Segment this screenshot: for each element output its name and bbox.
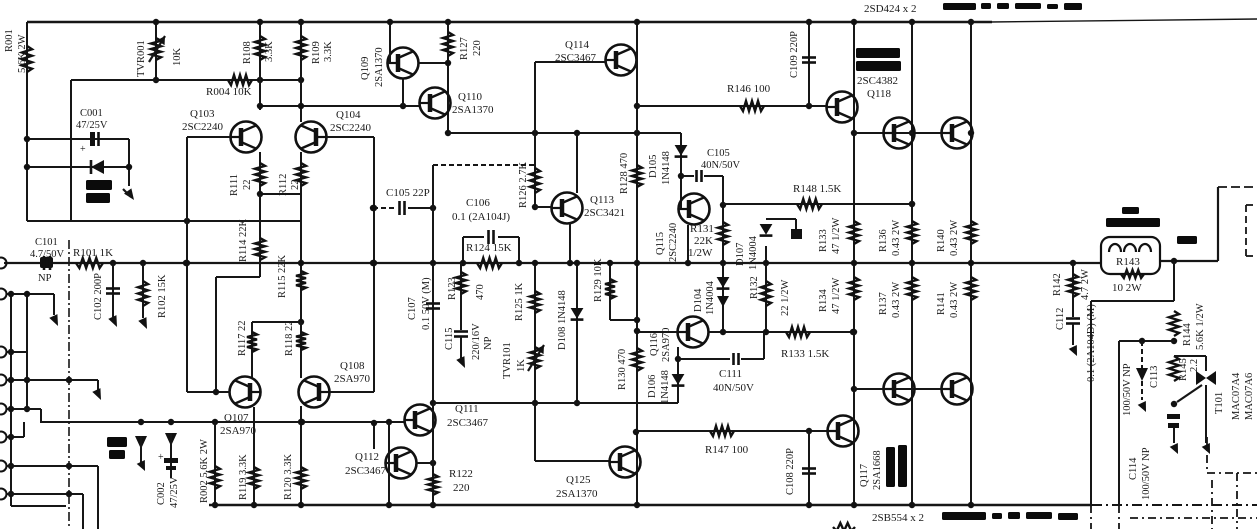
svg-text:R146 100: R146 100	[727, 83, 771, 95]
svg-text:40N/50V: 40N/50V	[713, 382, 754, 394]
svg-text:D107: D107	[735, 243, 746, 266]
svg-text:C105 22P: C105 22P	[386, 187, 430, 199]
svg-text:R102 15K: R102 15K	[157, 274, 168, 318]
svg-text:Q109: Q109	[360, 57, 371, 80]
svg-text:2SC2240: 2SC2240	[182, 121, 223, 133]
svg-text:C106: C106	[466, 197, 490, 209]
svg-text:C101: C101	[35, 237, 58, 248]
svg-text:+: +	[158, 452, 164, 463]
svg-text:R118 22: R118 22	[284, 321, 295, 357]
svg-text:47/25V: 47/25V	[76, 120, 108, 131]
svg-text:TVR101: TVR101	[502, 342, 513, 379]
svg-text:C114: C114	[1128, 457, 1139, 480]
svg-text:R141: R141	[936, 292, 947, 315]
svg-text:2SC3467: 2SC3467	[447, 417, 488, 429]
svg-text:R111: R111	[229, 174, 240, 196]
svg-text:R140: R140	[936, 229, 947, 252]
svg-text:1N4148: 1N4148	[660, 370, 671, 404]
svg-text:R133: R133	[818, 229, 829, 252]
svg-text:Q115: Q115	[655, 232, 666, 255]
svg-text:2SA1370: 2SA1370	[556, 488, 598, 500]
svg-text:4.7/50V: 4.7/50V	[30, 249, 65, 260]
svg-text:Q104: Q104	[336, 109, 361, 121]
svg-text:R124 15K: R124 15K	[466, 242, 512, 254]
svg-text:R148 1.5K: R148 1.5K	[793, 183, 841, 195]
svg-text:R131: R131	[690, 223, 714, 235]
svg-text:2SC4382: 2SC4382	[857, 75, 898, 87]
svg-text:Q110: Q110	[458, 91, 483, 103]
svg-text:C105: C105	[707, 148, 730, 159]
svg-text:47 1/2W: 47 1/2W	[831, 277, 842, 314]
svg-text:R129 10K: R129 10K	[593, 258, 604, 302]
svg-text:220: 220	[472, 40, 483, 56]
svg-text:3.3K: 3.3K	[264, 41, 275, 62]
svg-text:C107: C107	[407, 297, 418, 320]
svg-text:C108 220P: C108 220P	[785, 448, 796, 495]
svg-text:220/16V: 220/16V	[471, 323, 482, 360]
svg-text:C113: C113	[1149, 366, 1160, 388]
svg-text:2SC3421: 2SC3421	[584, 207, 625, 219]
svg-text:R132: R132	[749, 276, 760, 299]
svg-text:Q118: Q118	[867, 88, 892, 100]
svg-text:R133 1.5K: R133 1.5K	[781, 348, 829, 360]
svg-text:22: 22	[242, 180, 253, 191]
svg-text:TVR001: TVR001	[136, 40, 147, 77]
svg-text:2SC3467: 2SC3467	[345, 465, 386, 477]
svg-text:22K: 22K	[694, 235, 713, 247]
svg-text:R101 1K: R101 1K	[73, 247, 113, 259]
svg-text:R001: R001	[4, 29, 15, 52]
svg-text:Q112: Q112	[355, 451, 379, 463]
svg-text:D104: D104	[693, 288, 704, 312]
svg-text:R144: R144	[1182, 322, 1193, 346]
svg-text:100/50V NP: 100/50V NP	[1141, 447, 1152, 500]
svg-text:Q114: Q114	[565, 39, 590, 51]
svg-text:4.7 2W: 4.7 2W	[1080, 269, 1091, 300]
svg-text:R134: R134	[818, 288, 829, 312]
svg-text:47/25V: 47/25V	[169, 476, 180, 508]
svg-text:1K: 1K	[516, 359, 527, 372]
svg-text:Q111: Q111	[455, 403, 479, 415]
svg-text:0.43 2W: 0.43 2W	[949, 220, 960, 256]
svg-text:1N4004: 1N4004	[705, 280, 716, 315]
svg-text:2SA1370: 2SA1370	[452, 104, 494, 116]
svg-text:1/2W: 1/2W	[688, 247, 713, 259]
svg-text:NP: NP	[38, 273, 52, 284]
svg-text:2SC2240: 2SC2240	[330, 122, 371, 134]
svg-text:1N4148: 1N4148	[661, 151, 672, 185]
svg-text:0.43 2W: 0.43 2W	[891, 282, 902, 318]
svg-text:C001: C001	[80, 108, 103, 119]
svg-text:470: 470	[475, 284, 486, 300]
svg-text:C111: C111	[719, 368, 742, 380]
svg-text:2SB554 x 2: 2SB554 x 2	[872, 512, 924, 524]
svg-text:Q108: Q108	[340, 360, 365, 372]
svg-text:2.2: 2.2	[1189, 359, 1200, 372]
svg-text:R137: R137	[878, 292, 889, 315]
svg-text:47 1/2W: 47 1/2W	[831, 217, 842, 254]
svg-text:Q117: Q117	[859, 464, 870, 487]
svg-text:T101: T101	[1214, 392, 1225, 414]
svg-text:C115: C115	[444, 328, 455, 350]
svg-text:5.6K 1/2W: 5.6K 1/2W	[1195, 303, 1206, 350]
svg-text:C109 220P: C109 220P	[789, 31, 800, 78]
svg-text:10K: 10K	[172, 48, 183, 67]
svg-text:Q116: Q116	[649, 333, 660, 356]
svg-text:C112: C112	[1055, 308, 1066, 330]
svg-text:R004 10K: R004 10K	[206, 86, 252, 98]
svg-text:R122: R122	[449, 468, 473, 480]
svg-text:0.43 2W: 0.43 2W	[949, 282, 960, 318]
svg-text:NP: NP	[483, 336, 494, 350]
svg-text:10 2W: 10 2W	[1112, 282, 1142, 294]
svg-text:+: +	[80, 144, 86, 155]
svg-text:R147 100: R147 100	[705, 444, 749, 456]
svg-text:R128 470: R128 470	[619, 153, 630, 194]
svg-text:D105: D105	[648, 155, 659, 178]
svg-text:3.3K: 3.3K	[323, 41, 334, 62]
svg-text:1N4004: 1N4004	[748, 235, 759, 270]
svg-text:2SA970: 2SA970	[220, 425, 257, 437]
svg-text:R108: R108	[242, 41, 253, 64]
svg-text:2SD424 x 2: 2SD424 x 2	[864, 3, 917, 15]
svg-text:R127: R127	[459, 37, 470, 60]
svg-text:R126 2.7K: R126 2.7K	[518, 161, 529, 208]
svg-text:R125 1K: R125 1K	[514, 282, 525, 321]
svg-text:D108 1N4148: D108 1N4148	[557, 290, 568, 350]
svg-text:0.1 50V (M): 0.1 50V (M)	[421, 277, 432, 330]
svg-text:0.1 (2A104J): 0.1 (2A104J)	[452, 211, 510, 223]
svg-text:R123: R123	[447, 277, 458, 300]
svg-text:220: 220	[453, 482, 470, 494]
svg-text:MAC07A6: MAC07A6	[1244, 373, 1255, 420]
svg-text:2SA1668: 2SA1668	[872, 450, 883, 490]
svg-text:R114 22K: R114 22K	[238, 219, 249, 262]
svg-text:0.43 2W: 0.43 2W	[891, 220, 902, 256]
svg-text:R142: R142	[1052, 273, 1063, 296]
svg-text:22: 22	[290, 180, 301, 191]
svg-text:C102 200P: C102 200P	[93, 273, 104, 320]
svg-text:5.6K 2W: 5.6K 2W	[17, 34, 28, 73]
svg-text:22 1/2W: 22 1/2W	[780, 279, 791, 316]
svg-text:R109: R109	[311, 41, 322, 64]
svg-text:40N/50V: 40N/50V	[701, 160, 741, 171]
svg-text:MAC07A4: MAC07A4	[1231, 372, 1242, 420]
svg-text:2SA970: 2SA970	[334, 373, 371, 385]
svg-text:R143: R143	[1116, 256, 1140, 268]
svg-text:C002: C002	[156, 482, 167, 505]
svg-text:Q103: Q103	[190, 108, 215, 120]
svg-text:2SC2240: 2SC2240	[668, 223, 679, 262]
svg-text:R117 22: R117 22	[237, 321, 248, 357]
svg-text:R112: R112	[278, 174, 289, 196]
svg-text:R120 3.3K: R120 3.3K	[283, 453, 294, 500]
svg-text:R115 22K: R115 22K	[277, 255, 288, 298]
svg-text:R119 3.3K: R119 3.3K	[238, 454, 249, 500]
svg-text:Q125: Q125	[566, 474, 591, 486]
svg-text:R130 470: R130 470	[617, 349, 628, 390]
svg-text:D106: D106	[647, 375, 658, 398]
svg-text:R136: R136	[878, 229, 889, 252]
svg-text:R145: R145	[1178, 358, 1189, 381]
svg-text:Q113: Q113	[590, 194, 615, 206]
svg-text:100/50V NP: 100/50V NP	[1122, 363, 1133, 416]
svg-text:2SA1370: 2SA1370	[374, 47, 385, 87]
